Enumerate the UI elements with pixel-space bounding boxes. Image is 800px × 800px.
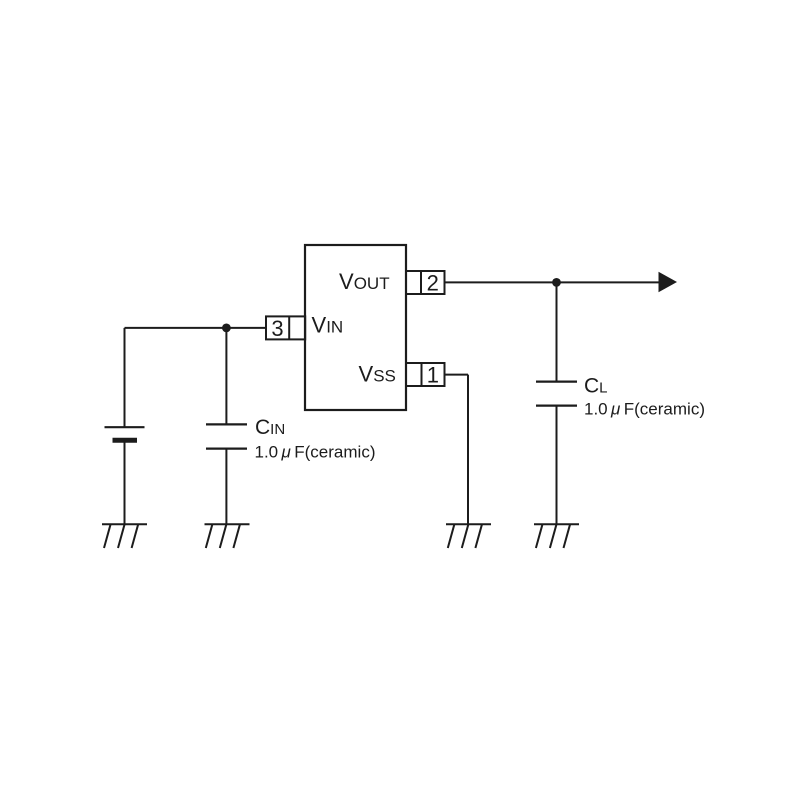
wire: input net horizontal (battery to pin 3)	[125, 327, 267, 329]
ground (CIN)	[205, 524, 250, 548]
ground (VSS)	[446, 524, 491, 548]
wire: junction down to CIN	[225, 328, 227, 425]
IC U1 body	[305, 245, 406, 410]
svg-text:1: 1	[427, 363, 439, 388]
pin 1 pad	[406, 363, 445, 386]
wire: VSS horizontal	[445, 374, 469, 376]
pin 3 pad	[288, 316, 290, 339]
node: output junction dot	[552, 278, 561, 287]
ground (battery)	[102, 524, 147, 548]
pin 2 number box	[420, 271, 422, 294]
wire: junction down to CL	[556, 282, 558, 381]
pin 3 number box	[266, 316, 305, 339]
svg-text:3: 3	[271, 316, 283, 341]
wire: CIN to ground	[225, 449, 227, 525]
svg-text:2: 2	[427, 271, 439, 296]
wire: battery bottom vertical	[124, 440, 126, 524]
svg-text:1.0 μ F(ceramic): 1.0 μ F(ceramic)	[584, 400, 705, 419]
wire: output net horizontal (pin 2 to arrow)	[445, 281, 660, 283]
pin 2 pad	[406, 271, 445, 294]
wire: CL to ground	[556, 406, 558, 525]
pin 1 number box	[421, 363, 423, 386]
capacitor CL top plate	[536, 381, 577, 383]
wire: battery top vertical	[124, 328, 126, 427]
capacitor CIN bottom plate	[206, 448, 247, 450]
output arrow	[659, 272, 678, 292]
node: input junction dot	[222, 324, 231, 333]
battery BT1 negative plate	[113, 438, 138, 443]
battery BT1 positive plate	[105, 426, 145, 428]
ground (CL)	[534, 524, 579, 548]
svg-text:1.0 μ F(ceramic): 1.0 μ F(ceramic)	[255, 443, 376, 462]
capacitor CIN top plate	[206, 423, 247, 425]
capacitor CL bottom plate	[536, 405, 577, 407]
wire: VSS vertical to ground	[467, 375, 469, 525]
